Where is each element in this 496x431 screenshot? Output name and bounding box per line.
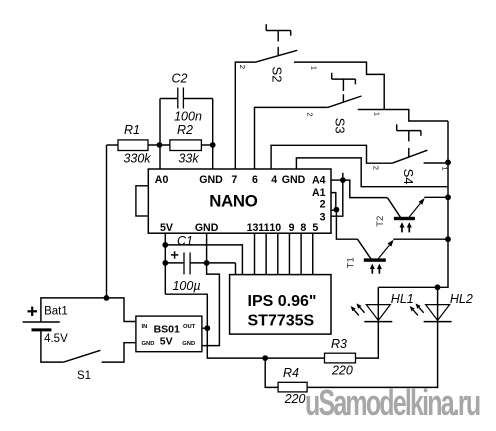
svg-text:11: 11 xyxy=(258,222,269,234)
svg-text:220: 220 xyxy=(284,392,306,406)
svg-text:100n: 100n xyxy=(174,110,202,124)
svg-text:ST7735S: ST7735S xyxy=(248,313,315,330)
svg-text:13: 13 xyxy=(247,222,259,234)
svg-text:NANO: NANO xyxy=(209,192,257,211)
svg-text:R1: R1 xyxy=(124,123,140,137)
svg-text:1: 1 xyxy=(310,66,319,70)
svg-text:GND: GND xyxy=(282,174,306,186)
svg-text:GND: GND xyxy=(195,222,219,234)
svg-text:A4: A4 xyxy=(312,174,326,186)
svg-text:T2: T2 xyxy=(375,216,386,227)
svg-text:C2: C2 xyxy=(172,72,188,86)
svg-text:HL2: HL2 xyxy=(450,292,473,306)
svg-text:2: 2 xyxy=(372,166,381,170)
svg-text:4.5V: 4.5V xyxy=(44,333,68,345)
svg-text:R3: R3 xyxy=(331,337,347,351)
svg-text:S2: S2 xyxy=(269,67,284,83)
svg-text:9: 9 xyxy=(289,222,295,234)
svg-text:IN: IN xyxy=(142,324,148,330)
svg-text:GND: GND xyxy=(182,341,195,347)
svg-text:3: 3 xyxy=(320,212,326,224)
svg-text:S1: S1 xyxy=(77,370,91,382)
svg-text:OUT: OUT xyxy=(183,324,196,330)
svg-text:4: 4 xyxy=(271,174,277,186)
svg-text:Bat1: Bat1 xyxy=(44,306,68,318)
svg-text:2: 2 xyxy=(238,65,247,69)
svg-text:IPS 0.96": IPS 0.96" xyxy=(248,293,317,310)
svg-text:330k: 330k xyxy=(123,152,151,166)
svg-text:1: 1 xyxy=(441,166,450,170)
svg-text:220: 220 xyxy=(331,364,353,378)
svg-text:A0: A0 xyxy=(155,174,169,186)
svg-text:A1: A1 xyxy=(312,187,326,199)
svg-text:S3: S3 xyxy=(333,118,348,134)
svg-text:2: 2 xyxy=(306,112,315,116)
svg-text:uSamodelkina.ru: uSamodelkina.ru xyxy=(305,383,480,424)
svg-text:GND: GND xyxy=(199,174,223,186)
svg-text:6: 6 xyxy=(252,174,258,186)
svg-text:R2: R2 xyxy=(177,123,193,137)
svg-text:C1: C1 xyxy=(177,234,193,248)
svg-text:5: 5 xyxy=(312,222,318,234)
svg-text:R4: R4 xyxy=(283,366,299,380)
svg-text:2: 2 xyxy=(320,199,326,211)
svg-text:1: 1 xyxy=(373,112,382,116)
svg-text:5V: 5V xyxy=(160,222,173,234)
svg-text:33k: 33k xyxy=(178,152,199,166)
svg-text:7: 7 xyxy=(231,174,237,186)
svg-text:BS01: BS01 xyxy=(154,323,180,335)
svg-text:HL1: HL1 xyxy=(391,292,414,306)
svg-text:S4: S4 xyxy=(401,169,416,185)
svg-text:8: 8 xyxy=(300,222,306,234)
svg-text:100µ: 100µ xyxy=(172,279,200,293)
svg-text:5V: 5V xyxy=(160,335,173,347)
svg-text:GND: GND xyxy=(142,341,155,347)
svg-text:T1: T1 xyxy=(346,257,357,268)
svg-text:10: 10 xyxy=(269,222,281,234)
